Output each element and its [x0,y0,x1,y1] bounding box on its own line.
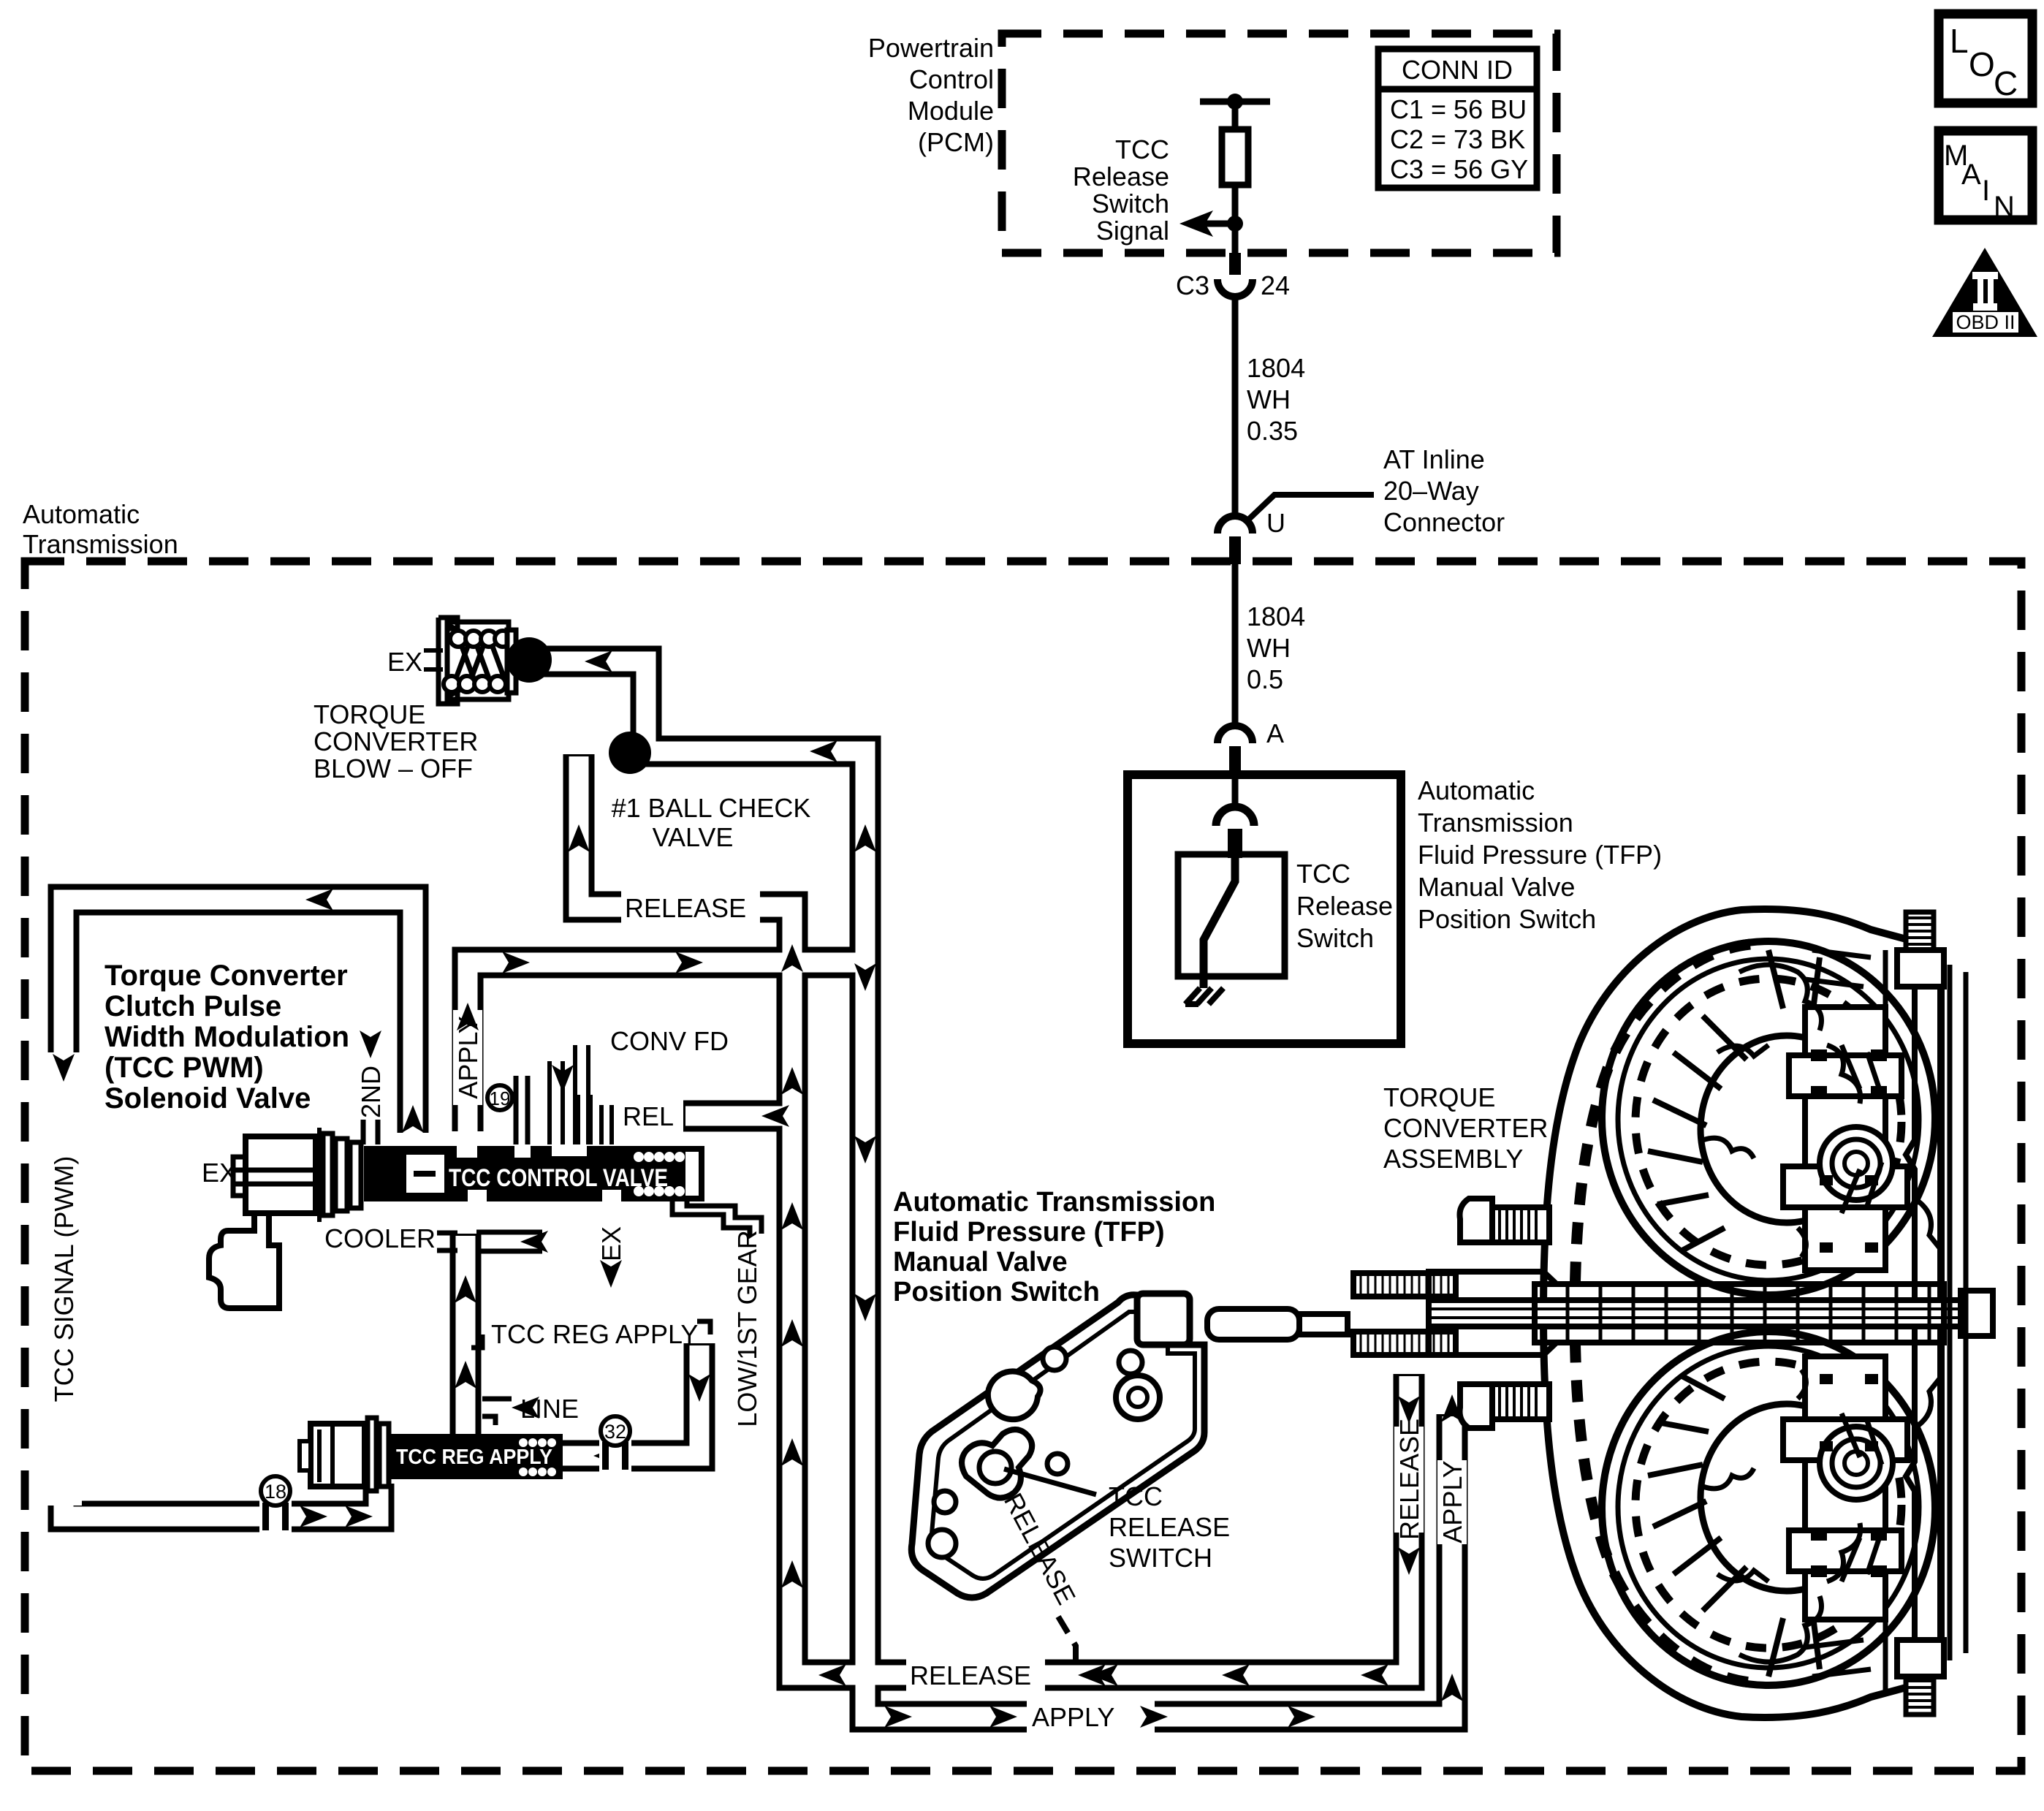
svg-text:Release: Release [1073,162,1169,191]
TFP Manual Valve Position Switch box [1128,775,1401,1044]
svg-text:Transmission: Transmission [23,529,178,559]
valve spring coils at right end [634,1152,685,1196]
bottom-right bolt [1906,1675,1934,1715]
svg-text:REL: REL [623,1101,674,1131]
wire [1232,102,1239,129]
reg apply spring coils [519,1438,556,1476]
TFP manual valve position switch plate [911,1295,1204,1598]
svg-text:#1 BALL CHECK: #1 BALL CHECK [612,793,811,823]
LOC box [1939,14,2032,103]
arrows [53,650,876,1588]
TCC REG APPLY solenoid body [311,1424,365,1487]
svg-text:LOW/1ST GEAR: LOW/1ST GEAR [732,1230,762,1427]
svg-text:C2 = 73 BK: C2 = 73 BK [1390,124,1525,154]
svg-text:TCC SIGNAL (PWM): TCC SIGNAL (PWM) [49,1156,79,1402]
2ND port stub [363,1120,378,1144]
reg apply loop down arrow [688,1374,710,1402]
2ND rotated label [355,1066,386,1118]
case inner double wall [1950,965,1966,1660]
solenoid nose bracket [233,1157,246,1196]
solenoid flange line [317,1128,322,1222]
svg-text:Control: Control [909,64,994,94]
svg-text:BLOW – OFF: BLOW – OFF [314,753,473,783]
APPLY rotated near converter [1437,1460,1467,1544]
resistor (pull-up in PCM) [1222,129,1248,185]
svg-text:Module: Module [908,96,994,126]
svg-text:Automatic Transmission: Automatic Transmission [893,1187,1215,1218]
bottom run arrows [818,1394,1463,1728]
svg-text:C1 = 56 BU: C1 = 56 BU [1390,94,1527,124]
junction dot [1227,216,1243,232]
svg-text:WH: WH [1247,384,1291,414]
svg-text:Position Switch: Position Switch [1418,904,1596,934]
svg-text:Release: Release [1296,891,1393,921]
svg-text:C3 = 56 GY: C3 = 56 GY [1390,154,1528,184]
svg-text:CONVERTER: CONVERTER [314,726,478,756]
svg-text:EX: EX [596,1226,626,1261]
TCC REG APPLY black bar [391,1434,563,1479]
white slot with dash [406,1155,444,1193]
TCC CONTROL VALVE black bar [364,1146,685,1201]
LOW/1ST GEAR stepped port lines [672,1201,761,1237]
valve right end outline [685,1149,702,1199]
svg-text:1804: 1804 [1247,601,1305,631]
svg-text:TCC: TCC [1296,859,1350,889]
center shaft band [1429,1300,1991,1326]
pipe cooler drop [450,1234,482,1436]
APPLY bottom run label [1027,1699,1155,1734]
reg apply loop left arrow [593,1445,621,1467]
svg-text:(TCC PWM): (TCC PWM) [105,1052,264,1084]
svg-text:O: O [1969,45,1995,83]
wire 1804 WH 0.5 [1232,564,1239,726]
svg-text:Fluid Pressure (TFP): Fluid Pressure (TFP) [893,1217,1165,1248]
pipe REL [683,1101,792,1132]
svg-text:TORQUE: TORQUE [314,699,425,729]
TCC release switch detail on plate [962,1430,1032,1498]
svg-text:I: I [1982,175,1990,207]
spring washer plug lower [1820,1427,1893,1500]
svg-text:(PCM): (PCM) [918,127,994,157]
leader line [1245,495,1374,523]
connector C3 pin 24 [1229,253,1241,275]
svg-text:APPLY: APPLY [1032,1702,1114,1732]
svg-text:A: A [1266,718,1284,748]
cooler arrow [476,1230,542,1235]
svg-text:L: L [1950,22,1969,60]
stator blades upper [1805,950,1882,1213]
svg-text:Width Modulation: Width Modulation [105,1021,349,1053]
svg-text:RELEASE: RELEASE [625,893,746,923]
spring washer plug upper [1820,1127,1893,1200]
svg-text:TORQUE: TORQUE [1383,1082,1495,1112]
svg-text:APPLY: APPLY [1437,1460,1467,1543]
svg-text:ASSEMBLY: ASSEMBLY [1383,1144,1523,1174]
wire [1232,185,1239,273]
CONV FD port stubs [550,1045,588,1144]
RELEASE bottom run label [906,1658,1045,1693]
svg-text:Signal: Signal [1096,216,1169,246]
blow-off plate [507,630,516,693]
left pump stud lower [1492,1384,1549,1419]
turbine hub splines [1353,1273,1456,1355]
svg-text:CONN ID: CONN ID [1402,55,1513,85]
extra port fingers [578,1095,612,1144]
svg-text:2ND: 2ND [356,1066,386,1118]
hydraulic channels: black outer pass [64,661,1452,1717]
svg-text:TCC REG APPLY: TCC REG APPLY [491,1319,698,1349]
svg-text:20–Way: 20–Way [1383,476,1479,506]
cooler channel up arrows [455,1275,476,1303]
svg-text:CONV FD: CONV FD [610,1026,729,1056]
svg-text:Position Switch: Position Switch [893,1277,1100,1307]
svg-text:24: 24 [1261,270,1290,300]
torque converter assembly [1207,909,1993,1717]
svg-text:C3: C3 [1176,270,1209,300]
svg-text:AT Inline: AT Inline [1383,444,1485,474]
connector U [1217,516,1253,534]
pipe left loop TCC signal [64,900,413,1516]
connector square on plate [1137,1294,1190,1345]
torque converter blow-off valve [447,622,509,699]
svg-text:TCC: TCC [1115,134,1169,164]
circled 19 [487,1085,512,1110]
wire into TFP switch box [1232,774,1239,808]
svg-text:TCC: TCC [1109,1481,1163,1511]
svg-text:Manual Valve: Manual Valve [1418,872,1575,902]
MAIN box [1939,131,2032,220]
input shaft from TFP side [1207,1309,1299,1340]
circled 18 and fitting [259,1500,292,1533]
torus upper blades [1648,950,1820,1251]
svg-text:Torque Converter: Torque Converter [105,960,348,992]
solenoid mounting bracket blob [209,1213,279,1308]
svg-text:Automatic: Automatic [1418,775,1535,805]
port 19 stub [516,1076,528,1144]
svg-text:U: U [1266,508,1285,538]
RELEASE rotated near converter [1394,1419,1424,1540]
svg-text:Automatic: Automatic [23,499,140,529]
pump body ledges [1429,1272,1557,1300]
#1 ball check valve ball [609,732,651,774]
svg-text:18: 18 [265,1481,286,1503]
shaft end cap [1961,1291,1993,1336]
hub seal details lower [1811,1374,1887,1577]
interior squiggle details lower [1703,1370,1941,1662]
OBD II triangle [1932,248,2037,337]
solenoid plates [323,1134,333,1215]
svg-text:RELEASE: RELEASE [1394,1419,1424,1540]
svg-text:Powertrain: Powertrain [868,33,994,63]
converter outer housing [1543,909,1941,1717]
dashed diagonal leader [1058,1617,1076,1666]
svg-text:Fluid Pressure (TFP): Fluid Pressure (TFP) [1418,840,1662,870]
plate holes [1043,1347,1066,1370]
svg-text:Solenoid Valve: Solenoid Valve [105,1082,311,1115]
central hub column upper [1783,1007,1907,1270]
RELEASE label in ball-check loop [621,890,760,925]
connector arc inside TFP box [1216,807,1254,826]
svg-text:A: A [1961,159,1981,191]
svg-text:Connector: Connector [1383,507,1505,537]
connector A [1217,726,1253,743]
torus lower blades [1648,1375,1820,1677]
wire top bar [1200,99,1270,105]
junction dot [1227,94,1243,110]
svg-text:COOLER: COOLER [324,1223,436,1253]
TCC SIGNAL (PWM) rotated label on left loop [45,1052,82,1506]
APPLY rotated label [453,1010,483,1105]
svg-text:TCC REG APPLY: TCC REG APPLY [396,1446,552,1469]
svg-text:C: C [1994,64,2018,102]
hub seal details upper [1811,1049,1887,1253]
svg-text:Manual Valve: Manual Valve [893,1247,1068,1277]
svg-text:RELEASE: RELEASE [1109,1512,1230,1542]
svg-text:SWITCH: SWITCH [1109,1543,1212,1573]
hydraulic channels: white inner pass [64,661,1452,1717]
svg-text:0.5: 0.5 [1247,664,1283,694]
svg-text:N: N [1994,191,2015,223]
solenoid body [246,1136,316,1213]
svg-text:19: 19 [490,1087,511,1109]
pipe TCC REG APPLY loop [557,1343,699,1456]
left pump stud upper [1492,1207,1549,1242]
circled 32 and fitting [599,1439,631,1473]
torus lower outer [1602,1332,1935,1685]
Powertrain Control Module dashed box [1002,34,1557,253]
pipe blow-off to seat to V2 to APPLY run to V4 [542,661,1452,1717]
pipe ball loop to RELEASE channel to V1 to RELEASE run to V3 [579,754,1409,1675]
Automatic Transmission dashed border [25,561,2021,1771]
svg-text:0.35: 0.35 [1247,416,1298,446]
scalloped inner edge texture [1575,944,1750,1682]
TCC release switch inner box [1178,854,1285,976]
case inner walls [1906,965,1915,1663]
signal arrow [1198,221,1235,227]
svg-text:VALVE: VALVE [653,822,734,852]
svg-text:EX: EX [387,647,422,677]
svg-text:1804: 1804 [1247,353,1305,383]
blow-off spring [444,631,511,692]
wire 1804 WH 0.35 [1232,298,1239,516]
blow-off ball [506,637,552,683]
svg-text:Transmission: Transmission [1418,808,1573,838]
stator blades lower [1805,1413,1882,1677]
svg-text:CONVERTER: CONVERTER [1383,1113,1548,1143]
CONN ID table [1378,49,1537,188]
svg-text:Clutch Pulse: Clutch Pulse [105,990,281,1022]
port notches on bar [457,1146,477,1158]
ground [1185,988,1223,1004]
switch blade [1204,857,1235,988]
torus upper outer [1602,941,1935,1295]
svg-text:OBD II: OBD II [1956,311,2015,333]
central hub column lower [1783,1356,1907,1620]
leader to TCC RELEASE SWITCH [1004,1469,1096,1495]
svg-text:32: 32 [604,1421,626,1443]
svg-text:Switch: Switch [1092,189,1169,219]
svg-text:Switch: Switch [1296,923,1374,953]
pipe APPLY L-channel [468,963,865,1131]
svg-text:RELEASE: RELEASE [910,1660,1031,1690]
svg-text:WH: WH [1247,633,1291,663]
interior squiggle details upper [1703,965,1941,1257]
top-right bolt [1906,912,1934,952]
